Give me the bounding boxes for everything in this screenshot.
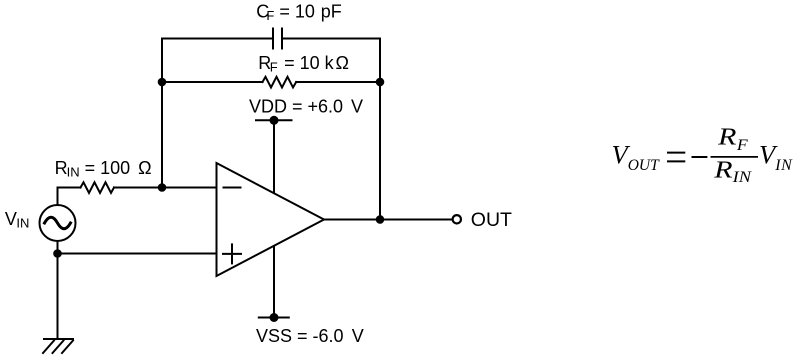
junction dot: non-inverting node (53, 249, 62, 258)
capacitor C_F plates (273, 29, 282, 49)
wire: top feedback (capacitor branch) right horizontal (283, 38, 380, 40)
svg-text:VOUT: VOUT (612, 140, 661, 175)
ground symbol (43, 339, 73, 353)
junction dot: inverting input node (158, 183, 167, 192)
OUT open terminal circle (453, 215, 461, 223)
svg-text:VSS = -6.0: VSS = -6.0 (256, 326, 344, 346)
svg-text:RF = 10 kΩ: RF = 10 kΩ (258, 53, 349, 75)
VDD supply terminal bar (256, 119, 292, 121)
junction dot: VDD terminal (270, 116, 279, 125)
op-amp minus sign (224, 187, 241, 189)
wire: VDD to op-amp top (273, 120, 275, 194)
svg-text:VIN: VIN (5, 209, 30, 231)
resistor R_IN zigzag (81, 182, 115, 193)
wire: down to ground (57, 254, 59, 340)
svg-text:OUT: OUT (471, 209, 512, 231)
resistor R_F zigzag (263, 77, 297, 88)
equation fraction bar (711, 156, 759, 158)
wire: op-amp output (324, 219, 452, 221)
svg-text:VIN: VIN (759, 140, 793, 175)
wire: source bottom lead (57, 241, 59, 254)
svg-text:VDD = +6.0: VDD = +6.0 (249, 97, 343, 117)
svg-text:RIN = 100 Ω: RIN = 100 Ω (55, 158, 152, 180)
op-amp plus sign (223, 244, 241, 263)
equation equals sign (667, 153, 685, 162)
wire: source to R_IN (58, 187, 81, 189)
wire: R_IN to op-amp minus input (114, 187, 217, 189)
wire: source top lead (57, 188, 59, 206)
wire: non-inverting input to op-amp plus (58, 253, 217, 255)
svg-text:RF: RF (717, 123, 748, 154)
svg-text:CF = 10: CF = 10 (256, 2, 315, 24)
wire: right vertical of feedback loop (379, 39, 381, 220)
svg-text:V: V (351, 97, 363, 117)
equation minus sign (692, 156, 708, 158)
VSS supply terminal bar (259, 317, 289, 319)
junction dot: output node (376, 215, 385, 224)
op-amp U1 triangle (217, 163, 325, 276)
junction dot: left feedback node (158, 78, 167, 87)
svg-text:V: V (352, 326, 364, 346)
junction dot: right feedback node (376, 78, 385, 87)
equation V_OUT = -(R_F/R_IN) V_IN (612, 123, 794, 186)
source V_IN sine wave (45, 217, 71, 229)
wire: R_F branch horizontal left segment (162, 81, 263, 83)
junction dot: VSS terminal (270, 313, 279, 322)
wire: top feedback (capacitor branch) left horizontal (162, 38, 272, 40)
source V_IN circle (40, 205, 76, 241)
wire: left vertical of feedback loop (161, 39, 163, 188)
wire: op-amp bottom to VSS (273, 246, 275, 318)
wire: R_F branch horizontal right segment (296, 81, 380, 83)
svg-text:pF: pF (321, 2, 342, 22)
svg-text:RIN: RIN (713, 157, 752, 186)
